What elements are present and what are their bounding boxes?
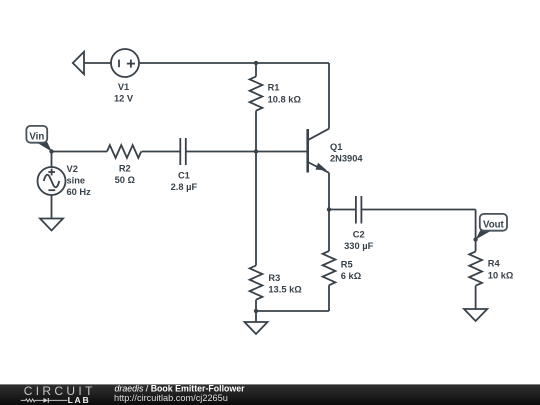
CircuitLab logo	[21, 384, 96, 405]
svg-text:V1: V1	[118, 82, 129, 92]
wire Q1 emitter down to C2 node	[328, 173, 330, 210]
voltage source V2 (sine)	[38, 167, 66, 195]
svg-text:C2: C2	[353, 230, 365, 240]
svg-text:50 Ω: 50 Ω	[115, 175, 136, 185]
wire C2 to Vout corner	[361, 209, 475, 211]
capacitor C1	[179, 138, 181, 165]
svg-text:10 kΩ: 10 kΩ	[488, 271, 514, 281]
resistor R4	[469, 252, 482, 286]
Q1 emitter arrow	[316, 163, 327, 171]
footer bar	[0, 384, 540, 405]
svg-text:6 kΩ: 6 kΩ	[341, 271, 362, 281]
wire R3 to ground node	[255, 300, 257, 322]
resistor R2	[107, 145, 141, 158]
node (R3 ground)	[254, 309, 258, 313]
transistor Q1	[306, 129, 309, 173]
node (emitter / C2)	[327, 207, 331, 211]
svg-text:R3: R3	[268, 273, 280, 283]
svg-text:R2: R2	[119, 164, 131, 174]
svg-text:draedis / Book Emitter-Followe: draedis / Book Emitter-Follower	[115, 383, 246, 393]
wire R4 to ground	[475, 286, 477, 309]
resistor R5	[323, 251, 336, 285]
svg-text:2N3904: 2N3904	[330, 153, 363, 163]
svg-text:R1: R1	[268, 83, 280, 93]
svg-text:Vin: Vin	[29, 131, 44, 142]
svg-text:330 µF: 330 µF	[344, 241, 373, 251]
wire R5 to bottom rail	[328, 285, 330, 311]
wire V2 top	[51, 152, 53, 168]
capacitor C2	[355, 196, 357, 224]
wire R2 to C1	[142, 151, 181, 153]
wire bottom rail R3 node to R5	[256, 310, 329, 312]
wire Vout node to R4	[475, 240, 477, 252]
Vin flag	[26, 126, 47, 143]
node (rail / R1 top)	[254, 61, 258, 65]
resistor R1	[250, 77, 263, 111]
voltage source V1	[111, 49, 139, 77]
wire V2 bottom to ground	[51, 195, 53, 219]
wire Vout corner down to node	[475, 210, 477, 240]
wire base node into R3	[255, 152, 257, 266]
wire C2 node to R5	[328, 210, 330, 252]
Vout flag	[480, 214, 507, 231]
wire Vin node to R2	[52, 151, 108, 153]
node (Vout)	[473, 237, 477, 241]
svg-text:C1: C1	[178, 171, 190, 181]
node (base)	[254, 149, 258, 153]
svg-text:Vout: Vout	[483, 219, 505, 230]
node (Vin)	[49, 149, 53, 153]
wire Q1 collector to rail	[328, 63, 330, 129]
ground (top-left, rotated, tip pointing left)	[73, 52, 84, 74]
svg-text:http://circuitlab.com/cj2265u: http://circuitlab.com/cj2265u	[114, 393, 228, 403]
wire C2 node to C2	[329, 209, 356, 211]
svg-text:V2: V2	[67, 164, 78, 174]
wire R1 to base node	[255, 111, 257, 152]
svg-text:13.5 kΩ: 13.5 kΩ	[268, 285, 302, 295]
wire ground to V1	[84, 62, 111, 64]
svg-text:2.8 µF: 2.8 µF	[171, 182, 198, 192]
svg-text:LAB: LAB	[68, 395, 91, 405]
ground (below R4)	[464, 309, 487, 321]
svg-text:10.8 kΩ: 10.8 kΩ	[268, 94, 302, 104]
Vout flag pointer	[476, 230, 492, 239]
wire V1 to collector rail (top rail)	[139, 62, 329, 64]
Vin flag pointer	[36, 142, 53, 152]
resistor R3	[250, 266, 263, 300]
wire rail into R1	[255, 63, 257, 77]
svg-text:sine: sine	[67, 176, 86, 186]
svg-text:Q1: Q1	[330, 142, 342, 152]
ground (below V2)	[40, 219, 63, 231]
svg-text:12 V: 12 V	[114, 94, 134, 104]
ground (below R3)	[245, 322, 268, 334]
wire C1 to base node	[186, 151, 256, 153]
svg-text:R4: R4	[488, 259, 501, 269]
wire base node to Q1 base	[256, 151, 307, 153]
svg-text:R5: R5	[341, 259, 353, 269]
svg-text:60 Hz: 60 Hz	[67, 187, 92, 197]
